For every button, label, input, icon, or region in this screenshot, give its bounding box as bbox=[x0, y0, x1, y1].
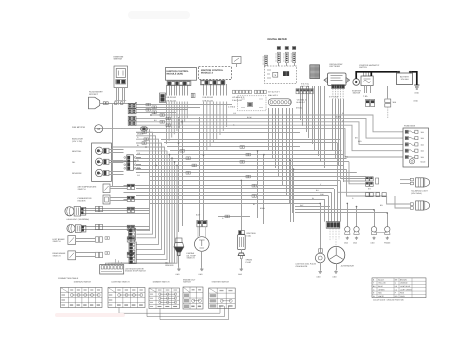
handlebar connector pairs bbox=[127, 207, 134, 257]
connector pair CP1 bbox=[128, 103, 136, 114]
wire band: mid bus y139-177 bbox=[112, 139, 387, 196]
oil sensor bbox=[165, 238, 184, 276]
rear brake switch bbox=[53, 251, 96, 260]
scan smudge bottom-left (pink) bbox=[55, 313, 125, 317]
battery bbox=[397, 71, 413, 84]
wire band: connector rows y104-112 bbox=[136, 105, 232, 113]
alternator connector bbox=[326, 222, 340, 229]
connector block CB1 bbox=[124, 155, 141, 171]
svg-text:GND: GND bbox=[199, 273, 204, 276]
lighting coil / pulse generator bbox=[296, 249, 326, 279]
wire bundle: left vertical harness (bus bends to switches) bbox=[95, 129, 178, 265]
meter color codes bbox=[301, 83, 309, 89]
headlight 2 bbox=[67, 224, 86, 232]
svg-text:MODULE 2: MODULE 2 bbox=[201, 71, 214, 74]
svg-text:FAN MOTOR: FAN MOTOR bbox=[72, 126, 85, 129]
small connector SC1 bbox=[160, 93, 166, 103]
ICM1 wire color codes bbox=[166, 96, 177, 102]
svg-text:GREEN: GREEN bbox=[378, 288, 385, 291]
svg-text:5YB G12A2: 5YB G12A2 bbox=[166, 99, 177, 102]
main fuse 7.5A bbox=[363, 86, 375, 107]
svg-text:Y/G R/BL G: Y/G R/BL G bbox=[297, 99, 307, 102]
svg-text:BU/W: BU/W bbox=[336, 116, 341, 119]
svg-text:ALTERNATOR: ALTERNATOR bbox=[341, 264, 355, 267]
svg-text:CONNECTION TABLE: CONNECTION TABLE bbox=[58, 277, 79, 280]
svg-text:G BL/W R/Y: G BL/W R/Y bbox=[232, 99, 243, 102]
ignition coil bbox=[238, 231, 256, 276]
svg-text:3YB 31: 3YB 31 bbox=[296, 107, 302, 110]
wire bundle: ICM2 drop bbox=[200, 84, 227, 236]
svg-text:Y/G BL/W R G: Y/G BL/W R G bbox=[232, 96, 245, 99]
svg-text:NEUTRAL: NEUTRAL bbox=[72, 150, 82, 153]
svg-text:MAIN: MAIN bbox=[421, 160, 426, 163]
regulator wire color codes bbox=[329, 96, 338, 99]
lighting/engine-stop switch connector strip bbox=[100, 259, 124, 274]
wire bundle: ICM1 drop bbox=[167, 85, 188, 232]
fuse 30A bbox=[385, 86, 397, 118]
lighting switch table bbox=[108, 281, 145, 308]
left brake switch bbox=[53, 236, 96, 245]
tail light lower connectors bbox=[366, 193, 387, 197]
carb heater connector bbox=[127, 196, 134, 201]
sub-harness dashed group bbox=[238, 96, 267, 111]
svg-text:5YB G12A2: 5YB G12A2 bbox=[166, 96, 177, 99]
bulb symbols row (turn/position lamps) bbox=[344, 227, 391, 245]
meter connector columns bbox=[263, 47, 296, 67]
svg-text:COLOR CODE : GROUND POINT MK: COLOR CODE : GROUND POINT MK bbox=[373, 299, 405, 302]
tail light connector bbox=[366, 177, 379, 187]
tail/brake light 1 bbox=[410, 178, 429, 187]
svg-text:GND: GND bbox=[176, 273, 181, 276]
svg-text:DIODE: DIODE bbox=[137, 132, 144, 135]
svg-text:R/BL W/G Y: R/BL W/G Y bbox=[268, 94, 279, 97]
svg-text:R Y Y G W: R Y Y G W bbox=[329, 96, 338, 99]
svg-text:SWITCH: SWITCH bbox=[183, 281, 191, 284]
vertical connector VC2 (lighting/starter switch) bbox=[129, 242, 136, 264]
svg-text:5YB G12A2: 5YB G12A2 bbox=[203, 99, 214, 102]
svg-text:GND: GND bbox=[344, 242, 349, 245]
svg-text:BLACK: BLACK bbox=[378, 278, 385, 281]
connector strip row A bbox=[233, 90, 267, 93]
lighting/starter switch label bbox=[125, 267, 146, 272]
digital meter assembly (dashed box) bbox=[264, 66, 296, 83]
svg-text:SWITCH: SWITCH bbox=[53, 254, 61, 257]
svg-text:(12V 21/5W): (12V 21/5W) bbox=[411, 192, 422, 195]
svg-text:WHITE: WHITE bbox=[378, 295, 384, 298]
svg-text:REVERSE: REVERSE bbox=[72, 172, 82, 175]
carburetor heater bbox=[78, 195, 128, 204]
svg-text:GND: GND bbox=[371, 242, 376, 245]
inter-module connector marks bbox=[191, 93, 195, 98]
svg-text:BL: BL bbox=[253, 203, 255, 206]
engine stop switch table bbox=[183, 278, 203, 309]
svg-text:LIGHTING SWITCH: LIGHTING SWITCH bbox=[112, 281, 130, 284]
wire color legend table bbox=[372, 278, 426, 302]
ignition switch table bbox=[61, 281, 103, 308]
table routing wires bbox=[119, 306, 229, 320]
wire bundle: meter drop bbox=[242, 108, 294, 231]
accessory socket bbox=[89, 91, 137, 186]
svg-text:G/W: G/W bbox=[320, 193, 324, 196]
svg-text:GND: GND bbox=[238, 273, 243, 276]
svg-text:PLUG: PLUG bbox=[246, 261, 252, 264]
svg-text:MODULE (ICM): MODULE (ICM) bbox=[167, 72, 184, 75]
svg-text:LIGHT GREEN: LIGHT GREEN bbox=[400, 288, 413, 291]
svg-text:SOCKET: SOCKET bbox=[89, 93, 99, 96]
svg-text:DIMMER SWITCH: DIMMER SWITCH bbox=[153, 281, 170, 284]
connector strip row B bbox=[296, 89, 313, 94]
svg-text:12V 8AH: 12V 8AH bbox=[400, 78, 409, 81]
diode (fan) bbox=[137, 127, 148, 136]
wire band: lower bus y180-200 bbox=[124, 180, 341, 221]
junction control module ICM2 bbox=[199, 67, 232, 85]
svg-text:BROWN: BROWN bbox=[400, 278, 407, 281]
svg-text:GND: GND bbox=[333, 276, 338, 279]
battery cable (thick) bbox=[356, 71, 417, 85]
svg-text:YELLOW: YELLOW bbox=[378, 282, 386, 285]
svg-text:BR/W: BR/W bbox=[260, 207, 265, 210]
svg-text:SWITCH: SWITCH bbox=[187, 257, 195, 260]
svg-text:SWITCH: SWITCH bbox=[53, 240, 61, 243]
svg-text:SENSOR: SENSOR bbox=[165, 264, 174, 267]
svg-text:SWITCH: SWITCH bbox=[78, 188, 86, 191]
tail/brake light label bbox=[411, 190, 429, 195]
wire band: main bus to fuse box y115-132 bbox=[136, 115, 403, 157]
ICM2 wire color codes bbox=[203, 96, 214, 102]
starter magnetic switch bbox=[359, 64, 380, 86]
svg-text:BL/W: BL/W bbox=[247, 116, 252, 119]
marks row lower bbox=[228, 106, 302, 110]
engine oil temp switch bbox=[187, 227, 210, 276]
svg-text:MOTOR: MOTOR bbox=[353, 92, 361, 95]
hatched connector block bbox=[310, 65, 320, 79]
battery ground bbox=[414, 85, 419, 95]
svg-text:GENERATOR: GENERATOR bbox=[296, 265, 308, 268]
svg-text:IGNITION CONTROL: IGNITION CONTROL bbox=[201, 69, 224, 72]
svg-text:GND: GND bbox=[353, 242, 358, 245]
svg-text:GND: GND bbox=[415, 92, 420, 95]
indicator lamp box bbox=[72, 138, 111, 182]
svg-text:SWITCH: SWITCH bbox=[114, 58, 123, 61]
wire junction dots bbox=[135, 102, 388, 214]
headlight 1 bbox=[65, 207, 89, 222]
svg-text:W G Y BL: W G Y BL bbox=[301, 85, 309, 88]
svg-text:(12V 1.7W): (12V 1.7W) bbox=[72, 140, 82, 143]
svg-text:BL: BL bbox=[137, 144, 139, 147]
small switch box S1 bbox=[232, 57, 241, 68]
svg-text:ENGINE STOP SWITCH: ENGINE STOP SWITCH bbox=[125, 270, 146, 273]
svg-text:RECTIFIER: RECTIFIER bbox=[330, 65, 341, 68]
svg-text:STARTER SWITCH: STARTER SWITCH bbox=[212, 281, 230, 284]
starter switch table bbox=[209, 281, 236, 309]
svg-text:IGNITION SWITCH: IGNITION SWITCH bbox=[74, 281, 92, 284]
svg-text:GND: GND bbox=[414, 100, 419, 103]
oval multi-pin connector bbox=[268, 99, 307, 106]
indicator bulb reverse bbox=[72, 169, 124, 176]
svg-text:DIGITAL METER: DIGITAL METER bbox=[268, 38, 287, 41]
svg-text:W: W bbox=[312, 197, 314, 200]
svg-text:W/G: W/G bbox=[358, 140, 362, 143]
wire band: bottom feeds y203-216 bbox=[83, 203, 388, 229]
air temp connector bbox=[127, 184, 134, 189]
svg-text:Z 3YB B: Z 3YB B bbox=[228, 106, 236, 109]
connector pair CP2 bbox=[128, 116, 136, 125]
wire bundle: alternator/regulator drops bbox=[301, 86, 344, 252]
inline connector marks bbox=[105, 103, 256, 254]
svg-text:G/Y BL R W Y: G/Y BL R W Y bbox=[268, 91, 281, 94]
svg-text:GRAY: GRAY bbox=[400, 295, 406, 298]
svg-text:7.5A: 7.5A bbox=[363, 95, 368, 98]
svg-text:IGNITION CONTROL: IGNITION CONTROL bbox=[167, 70, 190, 73]
headlight wire marks bbox=[96, 206, 103, 229]
engine oil temp switch connector bbox=[197, 220, 207, 226]
air temperature switch bbox=[78, 184, 128, 193]
wire color code marks bbox=[137, 112, 383, 220]
svg-text:BL/W R G: BL/W R G bbox=[297, 101, 306, 104]
bus color codes center bbox=[232, 91, 281, 103]
indicator bulb neutral bbox=[72, 147, 124, 154]
svg-text:FUSE BOX: FUSE BOX bbox=[404, 125, 416, 128]
alternator bbox=[328, 228, 355, 278]
svg-text:5YB G12A2: 5YB G12A2 bbox=[203, 96, 214, 99]
regulator/rectifier bbox=[324, 63, 350, 89]
svg-text:ORANGE: ORANGE bbox=[400, 282, 408, 285]
brake switch connectors bbox=[96, 237, 103, 258]
svg-text:HEADLIGHT (12V30/30W): HEADLIGHT (12V30/30W) bbox=[67, 218, 90, 221]
indicator bulb oil bbox=[72, 158, 124, 165]
tail/brake light 2 bbox=[387, 180, 430, 210]
svg-text:GND: GND bbox=[317, 276, 322, 279]
svg-text:SWITCH: SWITCH bbox=[359, 66, 367, 69]
vertical connector VC1 bbox=[129, 228, 136, 240]
svg-text:LIGHT BLUE: LIGHT BLUE bbox=[400, 285, 411, 288]
ignition switch bbox=[114, 55, 128, 104]
svg-text:FRAME: FRAME bbox=[384, 242, 391, 245]
fan motor bbox=[72, 125, 136, 133]
svg-text:HEATER: HEATER bbox=[78, 199, 87, 202]
ignition control module ICM1 bbox=[166, 68, 197, 86]
scan smudge top bbox=[128, 11, 190, 19]
fuse box bbox=[403, 125, 429, 168]
dimmer switch table bbox=[149, 281, 179, 309]
svg-text:W: W bbox=[137, 159, 139, 162]
starter motor bbox=[352, 79, 362, 95]
